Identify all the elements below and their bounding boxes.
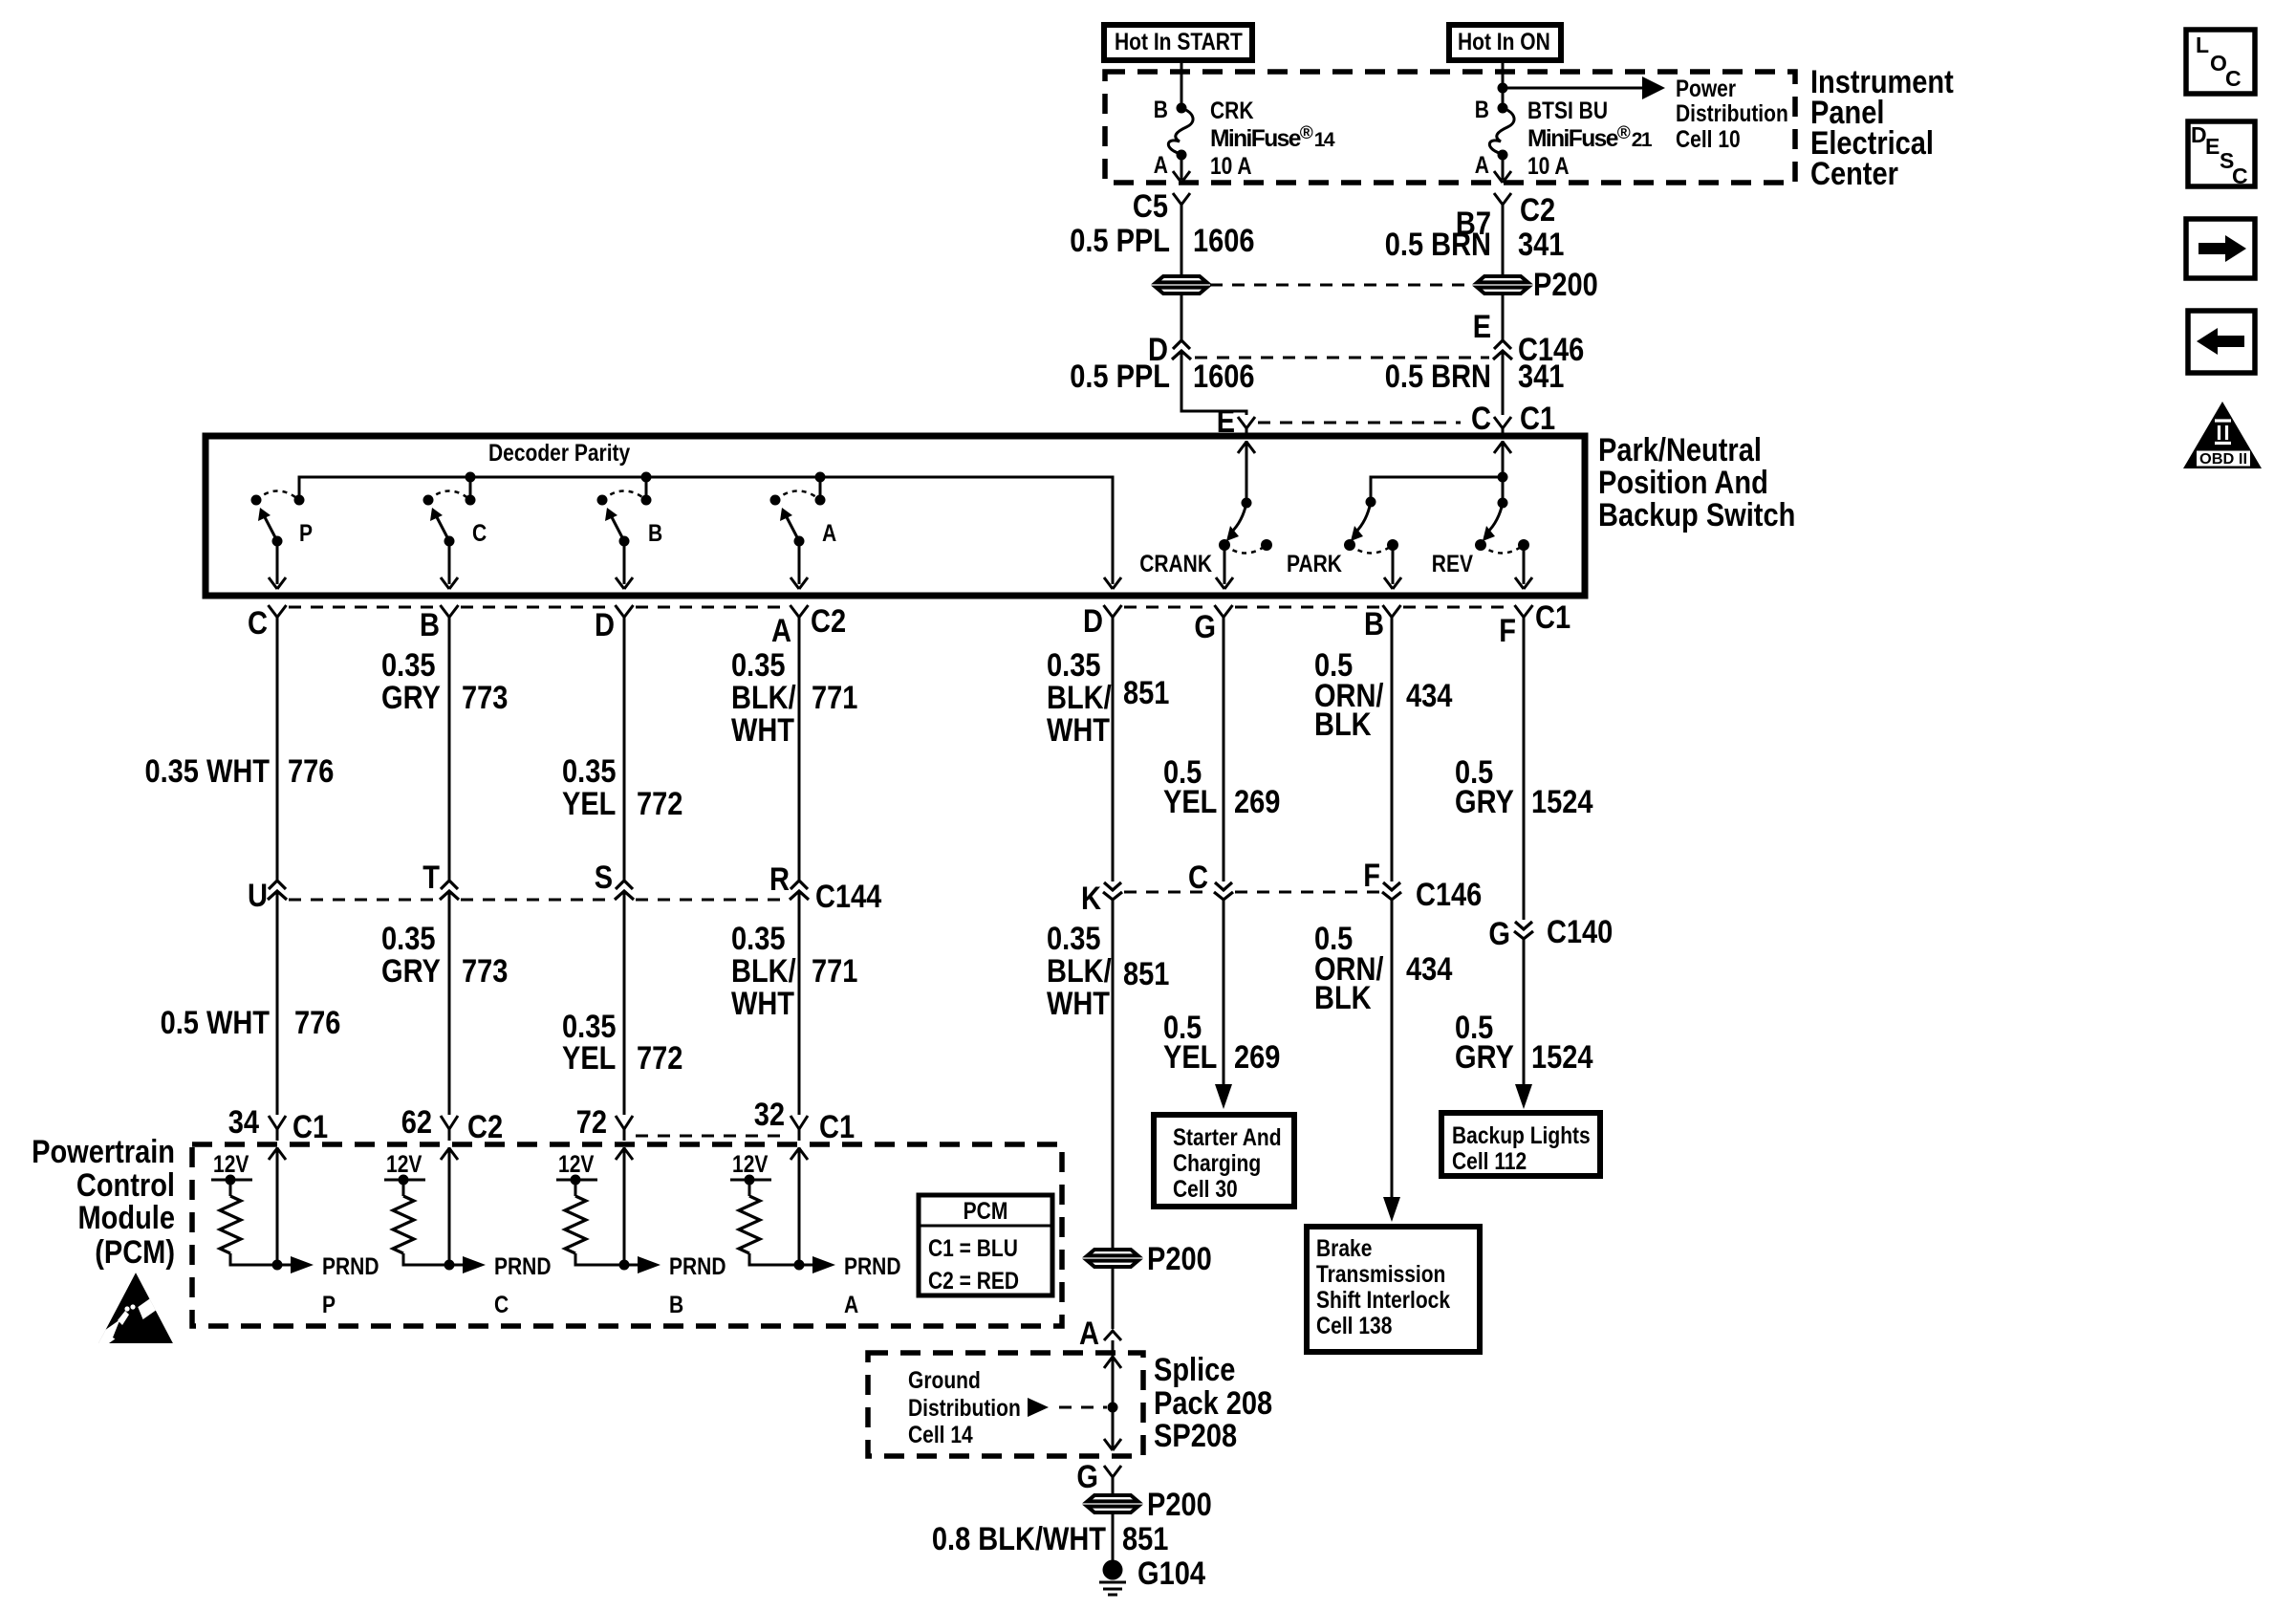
svg-text:C2: C2: [811, 603, 846, 640]
wire 7 ORN/BLK 434 lower segment with arrow: [1391, 900, 1394, 1201]
svg-text:Power: Power: [1676, 76, 1736, 102]
svg-text:BLK/: BLK/: [1047, 680, 1112, 716]
PCM input wire C with up arrow: [448, 1147, 451, 1265]
wire PPL to C146: [1180, 295, 1183, 340]
svg-text:12V: 12V: [386, 1152, 422, 1178]
svg-text:WHT: WHT: [1047, 986, 1110, 1022]
svg-text:434: 434: [1406, 678, 1453, 714]
svg-text:Cell 112: Cell 112: [1452, 1149, 1527, 1175]
svg-text:776: 776: [288, 753, 334, 790]
wire fuse 21 output with arrow: [1502, 155, 1505, 180]
svg-text:D: D: [1083, 603, 1103, 640]
svg-text:62: 62: [401, 1104, 432, 1141]
LOC icon: [2186, 30, 2255, 94]
REV output wire: [1523, 545, 1526, 584]
switch A: [770, 495, 781, 506]
svg-text:GRY: GRY: [381, 680, 441, 716]
svg-text:P: P: [299, 521, 313, 547]
svg-text:(PCM): (PCM): [95, 1234, 175, 1271]
wire 4 BLK/WHT 771 upper segment: [798, 617, 801, 880]
svg-text:773: 773: [462, 680, 508, 716]
svg-text:WHT: WHT: [731, 986, 794, 1022]
wire 0.5 PPL 1606 lower: [1181, 351, 1246, 415]
C144 dashed line: [289, 899, 788, 902]
fuse F14 CRK MiniFuse 14: [1177, 103, 1187, 114]
svg-text:PRND: PRND: [844, 1254, 901, 1280]
svg-text:32: 32: [754, 1097, 785, 1133]
ESD sensitive device symbol: [92, 1273, 173, 1350]
svg-text:BLK/: BLK/: [731, 680, 796, 716]
splice pack SP208 wire: [1112, 1340, 1115, 1449]
svg-text:C: C: [248, 605, 268, 642]
wire from Hot In START to fuse 14: [1180, 60, 1183, 104]
svg-text:0.35: 0.35: [381, 921, 436, 957]
svg-text:0.35: 0.35: [562, 753, 617, 790]
Instrument Panel Electrical Center dashed box: [1105, 72, 1795, 183]
svg-text:G104: G104: [1137, 1556, 1205, 1592]
dashed line P200 pair: [1210, 284, 1474, 287]
svg-text:REV: REV: [1432, 552, 1474, 577]
wire 3 YEL 772 upper segment: [623, 617, 626, 880]
svg-text:C1: C1: [1535, 599, 1570, 636]
svg-text:0.35: 0.35: [1047, 647, 1101, 684]
svg-text:34: 34: [228, 1104, 259, 1141]
svg-text:G: G: [1488, 916, 1510, 952]
dashed line C1 row: [1258, 422, 1461, 424]
svg-text:12V: 12V: [213, 1152, 249, 1178]
wire 8 GRY 1524 lower segment with arrow: [1523, 939, 1526, 1088]
svg-text:0.35 WHT: 0.35 WHT: [145, 753, 271, 790]
svg-text:10 A: 10 A: [1210, 154, 1252, 180]
svg-text:PCM: PCM: [964, 1199, 1008, 1225]
svg-text:0.35: 0.35: [731, 647, 786, 684]
svg-text:YEL: YEL: [562, 786, 616, 822]
svg-text:Powertrain: Powertrain: [32, 1134, 175, 1170]
svg-text:Hot In START: Hot In START: [1115, 30, 1243, 55]
svg-text:Control: Control: [76, 1167, 175, 1204]
svg-text:0.5 PPL: 0.5 PPL: [1070, 359, 1170, 395]
PARK output wire: [1392, 545, 1395, 584]
svg-text:BTSI BU: BTSI BU: [1527, 98, 1608, 124]
svg-text:C: C: [494, 1293, 509, 1318]
svg-text:B: B: [420, 607, 440, 643]
svg-text:Center: Center: [1810, 156, 1898, 192]
PCM input wire A with up arrow: [798, 1147, 801, 1265]
node PRND B junction: [619, 1260, 630, 1271]
svg-text:Cell 30: Cell 30: [1173, 1177, 1238, 1203]
wire 6 YEL 269 upper segment: [1223, 617, 1225, 881]
svg-text:B: B: [1364, 606, 1384, 642]
bus junction dots: [466, 472, 476, 483]
REV switch pivot feed: [1502, 441, 1505, 498]
svg-text:A: A: [1079, 1316, 1099, 1352]
node PRND C junction: [444, 1260, 455, 1271]
svg-text:772: 772: [637, 786, 682, 822]
junction to power distribution: [1498, 83, 1508, 94]
svg-text:Transmission: Transmission: [1316, 1262, 1445, 1288]
svg-text:YEL: YEL: [562, 1040, 616, 1077]
svg-text:D: D: [595, 607, 615, 643]
svg-text:0.35: 0.35: [1047, 921, 1101, 957]
wire 0.8 BLK/WHT 851 to ground: [1112, 1514, 1115, 1560]
svg-text:CRK: CRK: [1210, 98, 1254, 124]
svg-text:PRND: PRND: [494, 1254, 552, 1280]
Brake Transmission Shift Interlock Cell 138 box: [1307, 1227, 1480, 1352]
svg-text:0.5 WHT: 0.5 WHT: [161, 1005, 271, 1041]
svg-text:U: U: [248, 878, 268, 914]
svg-text:G: G: [1194, 609, 1216, 645]
svg-text:G: G: [1076, 1459, 1098, 1495]
svg-text:BLK/: BLK/: [731, 953, 796, 990]
svg-text:0.35: 0.35: [381, 647, 436, 684]
wire 0.5 BRN 341 lower: [1502, 351, 1505, 415]
svg-text:C2: C2: [467, 1109, 503, 1145]
PARK switch feed from REV junction: [1371, 477, 1503, 502]
svg-text:B: B: [1475, 98, 1489, 123]
Splice Pack dashed box: [868, 1353, 1143, 1456]
svg-text:SP208: SP208: [1154, 1418, 1237, 1454]
svg-text:0.5 BRN: 0.5 BRN: [1385, 359, 1491, 395]
svg-text:PRND: PRND: [669, 1254, 726, 1280]
wire 8 GRY 1524 upper segment: [1523, 617, 1526, 920]
CRANK switch arm: [1231, 503, 1246, 533]
wire 1 WHT 776 upper segment: [276, 617, 279, 880]
svg-text:1606: 1606: [1193, 359, 1255, 395]
svg-text:F: F: [1499, 613, 1516, 649]
svg-text:C1 = BLU: C1 = BLU: [928, 1236, 1018, 1262]
svg-text:Charging: Charging: [1173, 1151, 1261, 1177]
wire G to P200: [1112, 1477, 1115, 1493]
svg-text:12V: 12V: [732, 1152, 769, 1178]
svg-text:772: 772: [637, 1040, 682, 1077]
svg-text:CRANK: CRANK: [1139, 552, 1212, 577]
wire 2 GRY 773 lower segment: [448, 891, 451, 1115]
svg-text:C5: C5: [1133, 188, 1168, 225]
PCM input wire P with up arrow: [276, 1147, 279, 1265]
Starter And Charging Cell 30 box: [1154, 1115, 1294, 1207]
svg-text:WHT: WHT: [731, 712, 794, 749]
svg-text:C2 = RED: C2 = RED: [928, 1269, 1019, 1295]
svg-text:C: C: [1471, 401, 1491, 437]
svg-text:F: F: [1363, 858, 1380, 894]
svg-text:P200: P200: [1147, 1487, 1212, 1523]
CRANK output wire: [1224, 545, 1226, 584]
svg-text:851: 851: [1123, 956, 1169, 992]
svg-text:YEL: YEL: [1163, 784, 1217, 820]
svg-text:GRY: GRY: [1455, 784, 1514, 820]
svg-text:341: 341: [1518, 359, 1564, 395]
svg-text:GRY: GRY: [381, 953, 441, 990]
svg-text:Cell 138: Cell 138: [1316, 1314, 1392, 1339]
svg-text:A: A: [1475, 153, 1489, 179]
decoder parity bus wire: [299, 477, 1113, 584]
svg-text:A: A: [1154, 153, 1168, 179]
wire 0.5 BRN 341 upper: [1502, 205, 1505, 274]
connector C1 fork row dashed line: [1124, 606, 1512, 609]
svg-text:Splice: Splice: [1154, 1352, 1235, 1388]
wire 6 YEL 269 lower segment with arrow: [1223, 900, 1225, 1088]
inline connector P200 right: [1478, 276, 1528, 294]
svg-text:Backup Switch: Backup Switch: [1598, 497, 1795, 533]
wire 1 WHT 776 lower segment: [276, 891, 279, 1115]
svg-text:B: B: [1154, 98, 1168, 123]
svg-text:851: 851: [1122, 1521, 1168, 1557]
inline connector P200 left: [1157, 276, 1207, 294]
svg-text:E: E: [2205, 134, 2220, 159]
svg-text:269: 269: [1234, 784, 1280, 820]
svg-text:1524: 1524: [1531, 1039, 1593, 1076]
node PRND P junction: [272, 1260, 283, 1271]
svg-text:S: S: [595, 859, 613, 896]
svg-text:Distribution: Distribution: [1676, 101, 1788, 127]
svg-text:Backup Lights: Backup Lights: [1452, 1123, 1591, 1149]
svg-text:C: C: [2232, 163, 2248, 188]
switch P: [251, 495, 262, 506]
inline connector P200 bottom: [1088, 1495, 1138, 1512]
svg-text:E: E: [1473, 309, 1491, 345]
svg-text:Brake: Brake: [1316, 1236, 1372, 1262]
svg-text:771: 771: [812, 953, 857, 990]
PARK switch arm: [1355, 502, 1371, 533]
ground G104: [1103, 1560, 1123, 1580]
svg-text:10 A: 10 A: [1527, 154, 1570, 180]
svg-text:12V: 12V: [558, 1152, 595, 1178]
main diagram groups inserted below: [1070, 25, 1954, 440]
svg-text:Starter And: Starter And: [1173, 1125, 1282, 1151]
dashed line pins 72-32: [636, 1135, 788, 1138]
svg-text:72: 72: [576, 1104, 607, 1141]
svg-text:Position And: Position And: [1598, 465, 1768, 501]
svg-text:771: 771: [812, 680, 857, 716]
svg-text:P200: P200: [1533, 267, 1598, 303]
CRANK switch pivot feed: [1245, 441, 1248, 498]
svg-text:Hot In ON: Hot In ON: [1458, 30, 1550, 55]
svg-text:434: 434: [1406, 951, 1453, 988]
svg-text:B: B: [669, 1293, 683, 1318]
PCM dashed box: [192, 1144, 1062, 1326]
svg-text:YEL: YEL: [1163, 1039, 1217, 1076]
svg-text:341: 341: [1518, 227, 1564, 263]
svg-text:C2: C2: [1520, 192, 1555, 228]
dashed line C146 row top: [1195, 357, 1489, 359]
PCM input wire B with up arrow: [623, 1147, 626, 1265]
svg-text:C140: C140: [1547, 914, 1613, 950]
svg-text:C1: C1: [819, 1109, 855, 1145]
svg-text:C1: C1: [292, 1109, 328, 1145]
wire 0.5 PPL 1606 upper: [1180, 205, 1183, 274]
svg-text:776: 776: [294, 1005, 340, 1041]
wire 3 YEL 772 lower segment: [623, 891, 626, 1115]
switch B: [597, 495, 608, 506]
wire from Hot In ON: [1502, 60, 1505, 104]
svg-text:R: R: [769, 861, 790, 898]
svg-text:BLK: BLK: [1314, 707, 1372, 743]
svg-text:Pack 208: Pack 208: [1154, 1385, 1272, 1422]
svg-text:C: C: [2225, 66, 2242, 91]
svg-text:A: A: [844, 1293, 858, 1318]
svg-text:GRY: GRY: [1455, 1039, 1514, 1076]
fuse F21 BTSI BU MiniFuse 21: [1498, 103, 1508, 114]
svg-text:K: K: [1081, 881, 1101, 917]
svg-text:WHT: WHT: [1047, 712, 1110, 749]
svg-text:Shift Interlock: Shift Interlock: [1316, 1288, 1450, 1314]
dashed link to splice junction: [1059, 1406, 1107, 1409]
svg-text:PRND: PRND: [322, 1254, 379, 1280]
svg-text:Cell 14: Cell 14: [908, 1423, 973, 1448]
wire fuse 14 output with arrow: [1180, 155, 1183, 180]
forward arrow icon: [2186, 219, 2255, 278]
svg-text:L: L: [2196, 33, 2209, 57]
wire BRN to C146: [1502, 295, 1505, 340]
svg-text:A: A: [771, 613, 791, 649]
svg-text:C144: C144: [815, 879, 881, 915]
Backup Lights Cell 112 box: [1441, 1113, 1600, 1176]
svg-text:Decoder Parity: Decoder Parity: [488, 441, 630, 467]
wire 5 BLK/WHT 851 upper segment: [1112, 617, 1115, 881]
svg-text:0.5 BRN: 0.5 BRN: [1385, 227, 1491, 263]
svg-text:Ground: Ground: [908, 1368, 981, 1394]
Hot In START box: [1104, 25, 1252, 60]
node PRND A junction: [794, 1260, 805, 1271]
wire 851 to splice pack: [1112, 1269, 1115, 1329]
svg-text:P200: P200: [1147, 1241, 1212, 1277]
svg-text:C: C: [472, 521, 487, 547]
svg-text:Park/Neutral: Park/Neutral: [1598, 432, 1762, 468]
wire 4 BLK/WHT 771 lower segment: [798, 891, 801, 1115]
svg-text:Cell 10: Cell 10: [1676, 127, 1741, 153]
svg-text:T: T: [422, 859, 440, 896]
pointer to splice: [1028, 1398, 1049, 1417]
svg-text:BLK: BLK: [1314, 980, 1372, 1016]
wire 5 BLK/WHT 851 middle segment: [1112, 900, 1115, 1248]
svg-text:1606: 1606: [1193, 223, 1255, 259]
Park/Neutral Position And Backup Switch box: [206, 436, 1585, 596]
svg-text:0.5 PPL: 0.5 PPL: [1070, 223, 1170, 259]
svg-text:C1: C1: [1520, 401, 1555, 437]
svg-text:BLK/: BLK/: [1047, 953, 1112, 990]
svg-text:773: 773: [462, 953, 508, 990]
svg-text:P: P: [322, 1293, 336, 1318]
wire 7 ORN/BLK 434 upper segment: [1391, 617, 1394, 881]
svg-text:269: 269: [1234, 1039, 1280, 1076]
Hot In ON box: [1449, 25, 1561, 60]
svg-text:C: C: [1188, 859, 1208, 896]
C146 dashed line: [1124, 891, 1380, 894]
svg-text:851: 851: [1123, 675, 1169, 711]
svg-text:0.35: 0.35: [731, 921, 786, 957]
wire 2 GRY 773 upper segment: [448, 617, 451, 880]
inline connector P200 on 851 wire: [1088, 1250, 1138, 1267]
switch C: [423, 495, 434, 506]
svg-text:PARK: PARK: [1287, 552, 1342, 577]
svg-text:OBD II: OBD II: [2199, 451, 2247, 468]
back arrow icon: [2188, 311, 2255, 373]
svg-text:C146: C146: [1416, 877, 1482, 913]
svg-text:B: B: [648, 521, 662, 547]
svg-text:0.8 BLK/WHT: 0.8 BLK/WHT: [932, 1521, 1106, 1557]
svg-text:Module: Module: [78, 1200, 176, 1236]
DESC icon: [2188, 121, 2255, 186]
svg-text:1524: 1524: [1531, 784, 1593, 820]
svg-text:Distribution: Distribution: [908, 1396, 1021, 1422]
OBD II icon: [2183, 402, 2262, 468]
svg-text:A: A: [822, 521, 836, 547]
connector C2 fork row dashed line: [289, 606, 788, 609]
PCM connector legend box: [919, 1195, 1052, 1295]
REV switch arm: [1487, 503, 1503, 533]
